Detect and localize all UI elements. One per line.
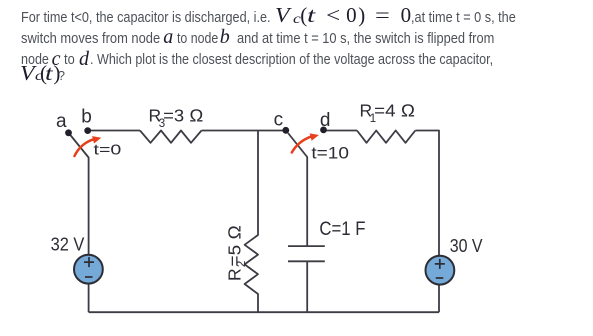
svg-text:R: R [225, 268, 245, 281]
svg-text:t=0: t=0 [94, 142, 122, 159]
svg-text:30 V: 30 V [450, 235, 483, 256]
svg-text:=5 Ω: =5 Ω [225, 225, 245, 267]
svg-text:t=10: t=10 [311, 144, 349, 163]
svg-text:c: c [274, 110, 284, 131]
svg-text:b: b [81, 106, 92, 127]
svg-text:d: d [320, 110, 331, 131]
svg-text:C=1 F: C=1 F [319, 219, 365, 240]
svg-text:=3 Ω: =3 Ω [163, 105, 203, 125]
svg-text:a: a [56, 111, 67, 132]
svg-text:=4 Ω: =4 Ω [374, 101, 415, 121]
svg-text:32 V: 32 V [51, 233, 85, 254]
